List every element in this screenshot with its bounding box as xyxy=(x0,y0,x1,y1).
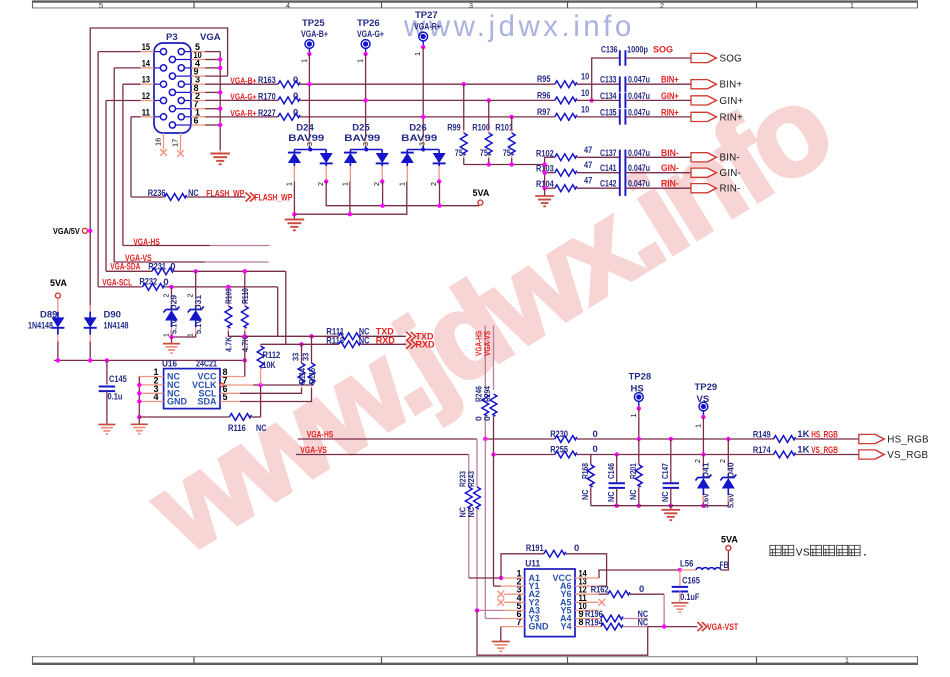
svg-text:4.7K: 4.7K xyxy=(224,336,234,352)
wire R246 column down to U11 Y3 xyxy=(484,439,486,619)
svg-text:D24: D24 xyxy=(296,123,314,134)
svg-text:SDA: SDA xyxy=(197,397,217,407)
wire D26 pin2 xyxy=(438,166,440,182)
port FLASH_WP xyxy=(246,193,256,202)
svg-text:D29: D29 xyxy=(169,295,179,311)
svg-text:RXD: RXD xyxy=(376,335,396,345)
wire D24 pin2 xyxy=(325,166,327,182)
svg-text:2: 2 xyxy=(374,182,381,186)
svg-text:D40: D40 xyxy=(726,462,736,478)
svg-text:0.1u: 0.1u xyxy=(108,392,123,403)
svg-text:NC: NC xyxy=(606,492,616,503)
svg-text:75: 75 xyxy=(455,148,463,158)
svg-text:R110: R110 xyxy=(240,288,250,304)
resistor R109 4.7K xyxy=(226,285,230,289)
wire P3 pin9 loop to VGA/5V xyxy=(205,75,228,77)
resistor R162 0 xyxy=(575,593,599,595)
svg-text:24C21: 24C21 xyxy=(196,359,218,370)
svg-text:RIN-: RIN- xyxy=(720,184,741,195)
svg-text:GND: GND xyxy=(167,397,188,407)
port TXD xyxy=(406,332,416,341)
resistor R196 NC xyxy=(575,618,601,620)
svg-text:VGA-R+: VGA-R+ xyxy=(414,22,441,33)
op-amp U11 box xyxy=(525,569,575,637)
wire TP27 to R+ line and D26 xyxy=(422,47,424,137)
svg-text:16: 16 xyxy=(154,138,163,146)
svg-text:1: 1 xyxy=(356,59,365,63)
resistor R116 NC xyxy=(139,416,229,418)
svg-text:VGA-G+: VGA-G+ xyxy=(357,29,384,40)
svg-text:R99: R99 xyxy=(447,123,460,134)
port RIN+ xyxy=(691,112,717,121)
P3 pin17 no-connect xyxy=(180,133,182,152)
svg-text:5VA: 5VA xyxy=(473,188,490,198)
svg-text:1: 1 xyxy=(399,182,406,186)
ground (BIN- group) xyxy=(544,188,546,196)
ground (U11 pin7) xyxy=(492,642,510,652)
svg-text:1: 1 xyxy=(286,182,293,186)
svg-text:D90: D90 xyxy=(104,310,121,321)
svg-text:C147: C147 xyxy=(660,463,670,479)
U11 Y5 pin10 stub xyxy=(575,609,599,611)
svg-text:R191: R191 xyxy=(526,543,544,554)
wire P3 ground pins to bus xyxy=(205,51,220,53)
resistor R194 NC xyxy=(575,626,601,628)
svg-text:3: 3 xyxy=(363,142,370,146)
svg-text:D41: D41 xyxy=(701,462,711,478)
wire U11 GND pin7 xyxy=(501,626,525,628)
svg-text:10: 10 xyxy=(581,72,589,83)
wire U11 Y3 pin6 xyxy=(501,618,525,620)
svg-text:3: 3 xyxy=(420,142,427,146)
resistor R114 33 xyxy=(299,342,303,346)
wire U16 SCL pin6 to R114 xyxy=(220,392,240,394)
svg-text:0.047u: 0.047u xyxy=(628,91,650,101)
wire 75-ohm bus to BIN- column xyxy=(464,164,545,166)
wire Y4 row to VGA-VST xyxy=(648,626,698,628)
svg-text:1: 1 xyxy=(300,59,309,63)
svg-text:RIN+: RIN+ xyxy=(720,112,743,123)
svg-text:1: 1 xyxy=(693,424,702,428)
svg-text:SOG: SOG xyxy=(720,53,742,64)
port BIN- xyxy=(691,153,717,162)
wire P3 pin15 to VGA-SCL xyxy=(141,51,155,53)
svg-text:VGA-B+: VGA-B+ xyxy=(301,29,328,40)
svg-text:0: 0 xyxy=(482,416,492,421)
ground (C145) xyxy=(98,425,115,434)
svg-text:1000p: 1000p xyxy=(627,44,649,54)
wire D24 pin1 xyxy=(293,166,295,182)
wire ground bus of P3 xyxy=(219,52,221,150)
P3 right pin stubs xyxy=(191,51,205,53)
resistor R110 4.7K xyxy=(243,269,247,273)
svg-text:R115: R115 xyxy=(307,368,317,384)
wire TP25 to B+ line and D24 xyxy=(308,54,310,137)
ground (diode bus) xyxy=(293,214,295,219)
svg-text:1: 1 xyxy=(629,413,638,417)
ground (C165) xyxy=(671,603,688,612)
svg-text:.: . xyxy=(864,547,867,559)
port VGA-VST xyxy=(697,622,707,631)
text annotation: add VS wake function xyxy=(770,545,781,555)
port SOG xyxy=(691,53,717,62)
connector P3 xyxy=(154,32,221,133)
wire R191 to U11 A6 pin13 xyxy=(566,554,607,586)
wire U16 SDA pin5 to R115 xyxy=(220,401,240,403)
wire R110/VCC node xyxy=(244,331,246,360)
wire U11 A3 pin5 xyxy=(477,609,504,611)
svg-text:C141: C141 xyxy=(600,163,617,173)
svg-text:SOG: SOG xyxy=(653,44,673,54)
wire feedback loop Y4/R162 to A3 xyxy=(477,610,648,655)
op-amp U16 24C21 box xyxy=(164,369,220,409)
port HS_RGB xyxy=(859,434,885,443)
wire VS row right segment xyxy=(494,454,555,456)
svg-text:R149: R149 xyxy=(753,429,771,440)
wire D26 pin1 xyxy=(406,166,408,182)
svg-text:BIN+: BIN+ xyxy=(661,75,679,85)
svg-text:C145: C145 xyxy=(109,374,127,385)
svg-text:1N4148: 1N4148 xyxy=(28,321,53,332)
svg-text:0.047u: 0.047u xyxy=(628,163,650,173)
svg-text:VS_RGB: VS_RGB xyxy=(887,450,928,461)
P3 pin16 no-connect xyxy=(163,133,165,151)
wire SCL to TXD row xyxy=(277,287,279,336)
svg-text:VS_RGB: VS_RGB xyxy=(811,445,838,455)
svg-text:U11: U11 xyxy=(525,559,541,570)
U11 A5 pin11 no-connect xyxy=(575,601,599,603)
svg-text:33: 33 xyxy=(301,353,311,361)
svg-text:U16: U16 xyxy=(162,359,177,370)
svg-text:1N4148: 1N4148 xyxy=(104,321,129,332)
svg-text:75: 75 xyxy=(503,148,511,158)
svg-text:R243: R243 xyxy=(466,471,476,487)
port GIN- xyxy=(691,168,717,177)
svg-text:1: 1 xyxy=(413,52,422,56)
wire P3 pin11 to FLASH_WP xyxy=(141,116,155,118)
svg-text:C146: C146 xyxy=(606,463,616,479)
svg-text:VS: VS xyxy=(796,547,810,558)
svg-text:HS_RGB: HS_RGB xyxy=(887,434,929,445)
svg-text:C135: C135 xyxy=(600,107,617,117)
svg-text:1: 1 xyxy=(850,1,854,10)
svg-text:Y4: Y4 xyxy=(560,622,571,632)
resistor R233 NC xyxy=(468,455,470,488)
wire TP26 to G+ line and D25 xyxy=(365,54,367,137)
svg-text:R100: R100 xyxy=(472,123,490,134)
svg-text:R174: R174 xyxy=(753,445,771,456)
svg-text:C134: C134 xyxy=(600,91,617,101)
svg-text:GIN+: GIN+ xyxy=(661,91,679,101)
svg-text:VGA-VS: VGA-VS xyxy=(482,331,492,356)
svg-text:R95: R95 xyxy=(537,74,551,85)
svg-text:2: 2 xyxy=(318,182,325,186)
ground (D29/D31) xyxy=(163,344,180,353)
port VS_RGB xyxy=(859,450,885,459)
port GIN+ xyxy=(691,96,717,105)
svg-text:0: 0 xyxy=(593,444,598,455)
U11 A2 pin3 no-connect xyxy=(504,593,525,595)
wire D24/D25/D26 cathode bus to 5VA xyxy=(326,182,479,206)
svg-text:TP29: TP29 xyxy=(695,382,718,393)
svg-text:TP26: TP26 xyxy=(357,18,380,29)
svg-text:RIN+: RIN+ xyxy=(661,107,679,117)
wire SDA to RXD row xyxy=(285,271,287,344)
port RXD xyxy=(406,340,416,349)
wire P3 pin13 to VGA-HS xyxy=(141,83,155,85)
svg-text:2: 2 xyxy=(431,182,438,186)
wire U16 pins 1-4 to ground xyxy=(139,376,163,378)
wire D25 pin1 xyxy=(349,166,351,182)
svg-text:11: 11 xyxy=(142,107,150,117)
svg-text:10: 10 xyxy=(581,104,589,115)
svg-text:12: 12 xyxy=(142,91,150,101)
svg-text:TP28: TP28 xyxy=(629,372,652,383)
svg-text:TP25: TP25 xyxy=(302,18,325,29)
wire P3 pin14 to VGA-VS xyxy=(141,67,155,69)
svg-text:HS_RGB: HS_RGB xyxy=(811,429,838,439)
svg-text:1: 1 xyxy=(163,333,170,337)
svg-text:5VA: 5VA xyxy=(50,278,67,288)
svg-text:VGA-VS: VGA-VS xyxy=(300,445,327,455)
svg-text:GIN+: GIN+ xyxy=(720,96,744,107)
svg-text:R114: R114 xyxy=(297,368,307,384)
wire TP29 to VS row xyxy=(702,417,704,455)
wire HS row right segment xyxy=(485,438,555,440)
wire D24/D25/D26 anode bus to ground xyxy=(294,182,406,215)
svg-text:14: 14 xyxy=(142,58,150,68)
capacitor C145 0.1u xyxy=(106,360,108,384)
U11 Y2 pin4 no-connect xyxy=(504,601,525,603)
svg-text:0.047u: 0.047u xyxy=(628,148,650,158)
svg-text:NC: NC xyxy=(660,492,670,503)
wire D29/D31 to ground xyxy=(172,334,196,337)
svg-text:D25: D25 xyxy=(352,123,370,134)
svg-text:0.047u: 0.047u xyxy=(628,179,650,189)
svg-text:0.1uF: 0.1uF xyxy=(680,592,699,603)
svg-text:0: 0 xyxy=(593,429,598,440)
svg-text:VGA/5V: VGA/5V xyxy=(53,226,80,236)
wire U16 VCC pin8 to 5VA bus xyxy=(220,376,245,378)
svg-text:C137: C137 xyxy=(600,148,617,158)
svg-text:RXD: RXD xyxy=(416,340,436,350)
wire R294 column down to U11 Y1 xyxy=(493,455,495,587)
svg-text:L56: L56 xyxy=(680,559,693,570)
svg-text:NC: NC xyxy=(359,335,370,346)
svg-text:R96: R96 xyxy=(537,90,550,101)
resistor R115 33 xyxy=(309,334,313,338)
svg-text:0.047u: 0.047u xyxy=(628,75,650,85)
svg-text:R97: R97 xyxy=(537,107,550,118)
svg-text:1: 1 xyxy=(342,182,349,186)
svg-text:BIN-: BIN- xyxy=(720,153,740,164)
svg-text:0.047u: 0.047u xyxy=(628,107,650,117)
wire D25 pin2 xyxy=(381,166,383,182)
svg-text:10: 10 xyxy=(581,88,589,99)
resistor R112 10K xyxy=(260,344,262,346)
svg-text:10K: 10K xyxy=(263,360,276,371)
svg-text:0: 0 xyxy=(574,543,579,554)
svg-text:C165: C165 xyxy=(682,576,700,587)
svg-text:VGA-VST: VGA-VST xyxy=(707,622,739,632)
port BIN+ xyxy=(691,80,717,89)
svg-text:FLASH_WP: FLASH_WP xyxy=(254,192,292,202)
svg-text:C142: C142 xyxy=(600,179,617,189)
svg-text:NC: NC xyxy=(580,490,590,501)
svg-text:R109: R109 xyxy=(224,288,234,304)
svg-text:17: 17 xyxy=(171,139,180,147)
wire R109 to TXD row xyxy=(228,331,244,336)
svg-text:VGA-SDA: VGA-SDA xyxy=(110,262,140,272)
svg-text:5: 5 xyxy=(99,1,103,10)
svg-text:P3: P3 xyxy=(166,32,178,43)
svg-text:NC: NC xyxy=(466,507,476,518)
svg-text:0: 0 xyxy=(639,584,644,595)
wire SOG tap xyxy=(592,58,620,100)
svg-text:C133: C133 xyxy=(600,75,617,85)
svg-text:R116: R116 xyxy=(228,423,246,434)
svg-text:VGA-HS: VGA-HS xyxy=(307,429,334,439)
wire R162 to VST node xyxy=(630,593,664,595)
svg-text:BIN-: BIN- xyxy=(661,148,679,158)
svg-text:GIN-: GIN- xyxy=(720,168,741,179)
svg-text:C136: C136 xyxy=(601,44,618,54)
svg-text:NC: NC xyxy=(628,490,638,501)
ground (U16) xyxy=(138,417,140,424)
svg-text:75: 75 xyxy=(480,148,488,158)
svg-text:5.1V: 5.1V xyxy=(193,319,203,334)
wire U11 Y1 pin2 xyxy=(501,585,525,587)
wire 5VA bus xyxy=(54,359,245,361)
wire P3 pin12 to VGA-SDA xyxy=(141,100,155,102)
svg-text:BIN+: BIN+ xyxy=(720,80,743,91)
wire bottom bus (HS/VS filters) xyxy=(591,505,729,507)
wire U11 VCC pin14 to FB xyxy=(575,577,599,579)
svg-text:2: 2 xyxy=(695,459,702,463)
svg-text:GND: GND xyxy=(529,622,550,632)
svg-text:47: 47 xyxy=(584,145,592,156)
ground P3 bus xyxy=(219,150,221,154)
svg-text:R194: R194 xyxy=(585,617,603,628)
svg-text:D31: D31 xyxy=(193,295,203,311)
svg-text:47: 47 xyxy=(584,176,592,187)
svg-text:D26: D26 xyxy=(409,123,426,134)
svg-text:GIN-: GIN- xyxy=(661,163,679,173)
svg-text:15: 15 xyxy=(142,42,150,52)
svg-text:3: 3 xyxy=(469,1,473,10)
resistor R243 NC xyxy=(476,439,478,487)
port RIN- xyxy=(691,184,717,193)
ground (HS/VS filters) xyxy=(670,506,672,510)
svg-text:47: 47 xyxy=(584,160,592,171)
svg-text:VGA: VGA xyxy=(200,32,221,43)
wire TP28 to HS row xyxy=(638,408,640,439)
svg-text:R101: R101 xyxy=(495,123,513,134)
svg-text:VGA-SCL: VGA-SCL xyxy=(102,277,132,287)
svg-text:5.1V: 5.1V xyxy=(169,319,179,334)
svg-text:RIN-: RIN- xyxy=(661,179,679,189)
svg-text:3: 3 xyxy=(307,142,314,146)
wire BIN- group ground column xyxy=(544,157,546,190)
svg-text:NC: NC xyxy=(256,423,267,434)
svg-text:TP27: TP27 xyxy=(415,10,438,21)
svg-text:2: 2 xyxy=(660,1,664,10)
wire U16 VCLK pin7 xyxy=(220,384,253,386)
svg-text:1: 1 xyxy=(845,655,849,664)
svg-text:13: 13 xyxy=(142,75,150,85)
svg-text:5VA: 5VA xyxy=(721,535,738,545)
svg-text:4: 4 xyxy=(286,1,290,10)
wire U11 A1 pin1 xyxy=(501,577,525,579)
svg-text:33: 33 xyxy=(291,353,301,361)
